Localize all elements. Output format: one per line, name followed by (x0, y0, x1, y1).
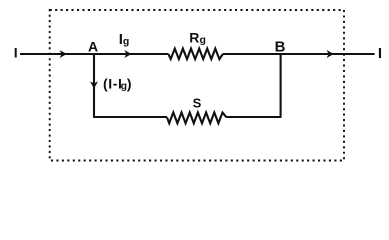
svg-text:I: I (378, 45, 382, 62)
arrow: current (I-Ig) downward (90, 81, 98, 88)
svg-text:g: g (123, 35, 129, 47)
dotted boundary box (50, 10, 344, 161)
arrow: current I exiting (right) (327, 50, 334, 58)
wire: vertical branch down from node A (93, 54, 95, 117)
wire: vertical branch down from node B (280, 54, 282, 117)
svg-text:R: R (189, 30, 199, 46)
resistor S shunt (zigzag) (167, 113, 227, 124)
wire: bottom left segment A to shunt S (93, 116, 167, 118)
svg-text:g: g (200, 34, 206, 46)
wire: resistor Rg to node B (223, 53, 281, 55)
wire: node A to resistor Rg (94, 53, 169, 55)
wire: left lead from I to node A (20, 53, 94, 55)
svg-text:): ) (127, 75, 132, 91)
svg-text:B: B (275, 39, 286, 56)
resistor Rg (zigzag) (168, 49, 223, 60)
arrow: current Ig toward Rg (124, 50, 131, 58)
svg-text:(I-I: (I-I (103, 75, 123, 91)
wire: node B to right lead I (281, 53, 375, 55)
svg-text:S: S (193, 96, 202, 111)
arrow: current I entering (left) (60, 50, 67, 58)
svg-text:A: A (88, 38, 98, 54)
svg-text:I: I (14, 44, 18, 60)
wire: bottom right segment shunt S to B (227, 116, 282, 118)
